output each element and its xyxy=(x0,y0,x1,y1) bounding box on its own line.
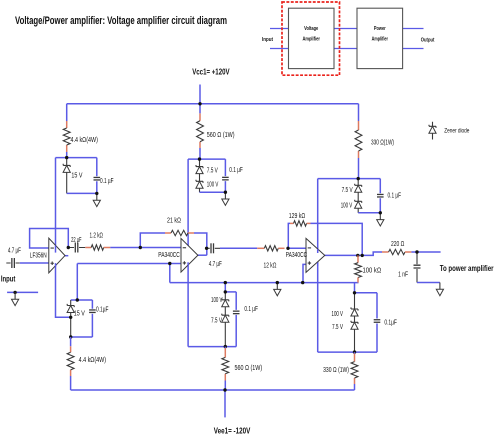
svg-text:To power amplifier: To power amplifier xyxy=(440,263,494,273)
svg-text:129 kΩ: 129 kΩ xyxy=(289,211,306,220)
svg-text:Amplifier: Amplifier xyxy=(302,37,320,43)
svg-text:100 V: 100 V xyxy=(332,309,344,318)
svg-text:4.4 kΩ(4W): 4.4 kΩ(4W) xyxy=(71,135,98,144)
svg-text:Input: Input xyxy=(262,37,273,43)
svg-text:100 V: 100 V xyxy=(341,201,353,210)
svg-text:0.1µF: 0.1µF xyxy=(384,318,397,327)
svg-text:0.1 µF: 0.1 µF xyxy=(244,304,258,313)
svg-text:1 nF: 1 nF xyxy=(398,269,408,278)
svg-text:4.7 µF: 4.7 µF xyxy=(209,259,222,268)
svg-text:Input: Input xyxy=(1,274,16,284)
svg-text:LF356N: LF356N xyxy=(30,250,47,259)
svg-text:4.4 kΩ(4W): 4.4 kΩ(4W) xyxy=(79,355,106,364)
svg-text:0.1µF: 0.1µF xyxy=(96,305,109,314)
svg-text:220 Ω: 220 Ω xyxy=(391,239,405,248)
svg-text:Vcc1= +120V: Vcc1= +120V xyxy=(192,66,230,76)
svg-text:100 V: 100 V xyxy=(211,295,223,304)
svg-text:PA340CC: PA340CC xyxy=(286,250,308,259)
svg-text:7.5 V: 7.5 V xyxy=(211,316,222,325)
svg-text:Voltage: Voltage xyxy=(304,26,318,32)
svg-text:Power: Power xyxy=(374,26,386,32)
svg-text:Zener diode: Zener diode xyxy=(444,128,469,135)
svg-text:15 V: 15 V xyxy=(74,309,85,318)
svg-text:7.5 V: 7.5 V xyxy=(342,185,353,194)
svg-text:100 V: 100 V xyxy=(207,179,219,188)
svg-text:Amplifier: Amplifier xyxy=(372,37,389,43)
svg-text:Vee1= -120V: Vee1= -120V xyxy=(214,425,251,435)
svg-text:100 kΩ: 100 kΩ xyxy=(363,266,382,275)
svg-text:15 V: 15 V xyxy=(71,171,82,180)
svg-text:560 Ω (1W): 560 Ω (1W) xyxy=(235,363,263,372)
svg-text:12 kΩ: 12 kΩ xyxy=(264,261,277,270)
svg-text:0.1 µF: 0.1 µF xyxy=(100,176,114,185)
svg-text:0.1 µF: 0.1 µF xyxy=(229,165,243,174)
svg-text:1.2 kΩ: 1.2 kΩ xyxy=(90,230,104,239)
svg-text:7.5 V: 7.5 V xyxy=(332,322,343,331)
svg-text:Voltage/Power amplifier: Volta: Voltage/Power amplifier: Voltage amplifi… xyxy=(15,15,227,27)
svg-text:330 Ω (1W): 330 Ω (1W) xyxy=(323,365,349,374)
svg-text:7.5 V: 7.5 V xyxy=(207,166,218,175)
svg-text:21 kΩ: 21 kΩ xyxy=(167,215,181,224)
svg-text:4.7 µF: 4.7 µF xyxy=(8,246,21,255)
svg-text:22 µF: 22 µF xyxy=(71,235,82,244)
svg-text:330 Ω(1W): 330 Ω(1W) xyxy=(371,137,394,146)
svg-text:0.1 µF: 0.1 µF xyxy=(388,191,402,200)
svg-text:560 Ω (1W): 560 Ω (1W) xyxy=(207,130,235,139)
svg-text:Output: Output xyxy=(421,38,435,44)
svg-text:PA340CC: PA340CC xyxy=(158,250,180,259)
